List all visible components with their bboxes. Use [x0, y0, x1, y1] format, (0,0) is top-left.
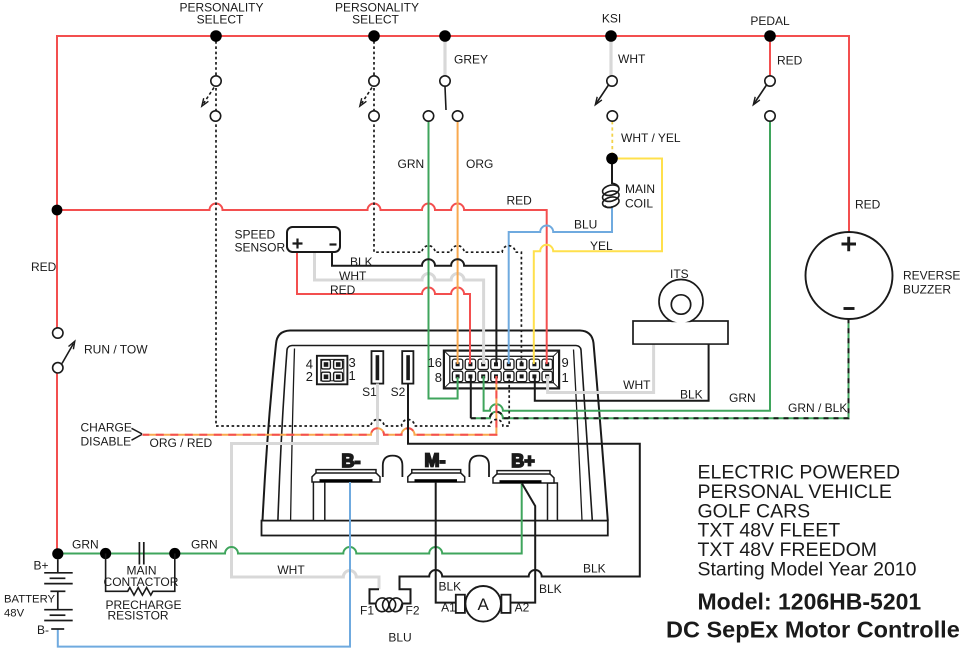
svg-text:BLU: BLU [574, 218, 597, 232]
main contactor tips [139, 542, 143, 565]
wire RED pedal stub [769, 36, 771, 76]
wire GRN/BLK black dashes overlay [471, 319, 849, 418]
svg-text:B-: B- [37, 623, 49, 637]
svg-text:WHT: WHT [618, 52, 646, 66]
wire BLK pin 7 stub [470, 376, 472, 418]
wire ORG selector to pin 16 [457, 121, 459, 364]
svg-text:2: 2 [306, 369, 313, 384]
wire BLK speed sensor to pin 13 [332, 252, 496, 364]
info text block [698, 462, 917, 581]
svg-text:GRN / BLK: GRN / BLK [788, 401, 847, 415]
wire GRN pedal to pin 6 [484, 121, 770, 411]
wire dotted PERSONALITY-2 to pin 11 [374, 36, 521, 364]
wire ORG/RED red dashes overlay [143, 376, 497, 435]
wire RED bus y210 with hops to pin 9 [57, 204, 547, 365]
junction dot battery B+ [52, 548, 63, 559]
svg-text:BLK: BLK [539, 582, 562, 596]
controller inner cover line left [291, 349, 295, 521]
wire BLK B+ to A2 [511, 484, 536, 603]
svg-text:Starting Model Year 2010: Starting Model Year 2010 [698, 559, 917, 581]
svg-text:RUN / TOW: RUN / TOW [84, 343, 148, 357]
svg-text:B+: B+ [34, 559, 49, 573]
wire RED speed sensor to pin 15 [297, 252, 470, 364]
switch KSI contacts and lever arrow [595, 76, 617, 121]
junction dot KSI [605, 30, 617, 42]
F1 bracket [370, 589, 380, 603]
svg-text:BLK: BLK [350, 255, 373, 269]
svg-text:8: 8 [435, 370, 442, 385]
switch personality 1 contacts and dashed lever [202, 76, 221, 121]
controller outer cover outline [263, 331, 608, 521]
main coil loops [601, 183, 620, 209]
wire WHT/YEL dashed stub at KSI [611, 121, 613, 153]
wire BLK main coil top lead [611, 159, 613, 185]
svg-text:WHT: WHT [339, 269, 367, 283]
wire RED left vertical battery feed upper [56, 210, 58, 328]
junction dot contactor right [169, 548, 180, 559]
battery cell plates [44, 559, 72, 629]
svg-text:1: 1 [562, 370, 569, 385]
svg-text:WHT / YEL: WHT / YEL [621, 131, 681, 145]
svg-text:RED: RED [777, 54, 803, 68]
terminal tray M- [408, 470, 465, 483]
svg-text:BLK: BLK [439, 580, 462, 594]
speed sensor box [287, 227, 340, 252]
wire GREY KSI stub [609, 36, 612, 76]
wire BLU main coil to pin 12 [509, 206, 612, 364]
ITS inner circle [671, 295, 690, 314]
connector 16-pin pins row 16..9 and 8..1 [452, 359, 552, 382]
switch personality 2 contacts and dashed lever [360, 76, 379, 121]
motor armature circle [465, 586, 501, 622]
svg-text:F1: F1 [360, 604, 374, 618]
svg-text:WHT: WHT [623, 378, 651, 392]
terminal post under B+ [548, 483, 558, 521]
svg-text:KSI: KSI [602, 12, 621, 26]
svg-text:Model: 1206HB-5201: Model: 1206HB-5201 [698, 589, 922, 615]
speed sensor minus [330, 243, 337, 245]
svg-text:CHARGE: CHARGE [81, 421, 132, 435]
terminal tray B+ [493, 471, 554, 484]
svg-text:CONTACTOR: CONTACTOR [104, 575, 179, 589]
wire WHT S1 to F1 [232, 384, 380, 590]
wire GRN selector to pin 8 [429, 121, 458, 398]
svg-text:GRN: GRN [398, 157, 425, 171]
svg-text:BLK: BLK [583, 562, 606, 576]
svg-text:BATTERY: BATTERY [4, 593, 56, 605]
charge disable arrow [132, 428, 143, 440]
svg-text:YEL: YEL [590, 239, 613, 253]
junction dot PEDAL [764, 30, 776, 42]
svg-text:PEDAL: PEDAL [750, 14, 790, 28]
svg-text:REVERSE: REVERSE [903, 269, 960, 283]
svg-text:A2: A2 [515, 601, 530, 615]
terminal tray B- [312, 470, 380, 483]
svg-text:WHT: WHT [277, 563, 305, 577]
svg-text:RED: RED [330, 283, 356, 297]
svg-text:RED: RED [855, 198, 881, 212]
wire BLK pin 2 to ITS [535, 344, 709, 401]
svg-text:A: A [478, 595, 490, 614]
svg-text:RED: RED [507, 194, 533, 208]
reverse buzzer circle [806, 232, 893, 319]
buzzer plus [842, 237, 857, 252]
svg-text:DISABLE: DISABLE [81, 435, 132, 449]
junction dot grey selector [439, 30, 451, 42]
ITS outer ring [659, 280, 703, 324]
svg-text:ORG / RED: ORG / RED [150, 436, 213, 450]
wire BLU battery B- to controller B- [58, 482, 350, 647]
wire RED main loop top bus and pedal feed to reverse buzzer [57, 36, 849, 231]
wire BLK M- to A1 [436, 482, 456, 603]
junction dot personality 2 [368, 30, 380, 42]
svg-text:ORG: ORG [466, 157, 493, 171]
svg-text:BLU: BLU [388, 631, 411, 645]
controller base plate [262, 521, 608, 536]
controller inner cover line right [574, 350, 583, 521]
switch RUN/TOW contacts and lever arrow [53, 328, 75, 373]
ITS body [633, 321, 728, 344]
svg-text:F2: F2 [405, 604, 419, 618]
svg-text:SELECT: SELECT [352, 13, 399, 27]
connector S2 slot [402, 351, 413, 384]
svg-text:1: 1 [349, 368, 356, 383]
svg-text:SPEED: SPEED [235, 228, 276, 242]
svg-text:GRN: GRN [729, 391, 756, 405]
svg-text:BLK: BLK [680, 388, 703, 402]
main contactor box with precharge resistor zigzag [106, 554, 175, 596]
svg-text:GREY: GREY [454, 53, 488, 67]
svg-text:ITS: ITS [670, 267, 689, 281]
svg-text:GRN: GRN [72, 538, 99, 552]
svg-text:16: 16 [428, 355, 442, 370]
wire GRN battery bus to B+ [58, 484, 522, 554]
junction dot contactor left [100, 548, 111, 559]
svg-text:GRN: GRN [191, 538, 218, 552]
svg-text:RESISTOR: RESISTOR [107, 608, 168, 622]
connector 4-pin housing [317, 356, 348, 385]
wire BLK S2 to F2 [400, 384, 640, 604]
svg-text:SELECT: SELECT [197, 13, 244, 27]
motor A2 bracket [501, 595, 510, 613]
terminal post under B- [313, 481, 324, 521]
field coil F1-F2 loops [375, 597, 404, 613]
motor A1 bracket [456, 595, 465, 613]
buzzer minus [844, 307, 855, 310]
wire GRN/BLK pin 7 to reverse buzzer (green base) [471, 319, 849, 418]
wire WHT speed sensor to pin 14 [315, 252, 484, 364]
wire ORG/RED pin 5 to charge disable (orange base) [143, 376, 497, 435]
wire RED left vertical battery feed lower [56, 373, 58, 554]
svg-text:9: 9 [562, 355, 569, 370]
switch grey selector contacts and lever [423, 76, 463, 121]
svg-text:A1: A1 [441, 601, 456, 615]
svg-text:COIL: COIL [625, 197, 653, 211]
connector S1 slot [372, 351, 384, 384]
CONTROLLER-BODY [262, 331, 608, 536]
wire dotted PERSONALITY-1 to pin 4 [216, 36, 509, 426]
junction dot left red bus [52, 205, 63, 216]
connector 4-pin pins [321, 360, 342, 381]
terminal arch between B- and M- [383, 456, 403, 477]
switch PEDAL contacts and lever arrow [753, 76, 775, 121]
svg-text:S2: S2 [391, 385, 406, 399]
svg-text:S1: S1 [362, 385, 377, 399]
svg-text:SENSOR: SENSOR [235, 241, 286, 255]
svg-text:48V: 48V [4, 608, 25, 620]
speed sensor plus [293, 239, 303, 249]
wire YEL main coil junction to pin 10 [534, 159, 662, 365]
wire GREY selector switch stub [443, 36, 446, 76]
svg-text:DC SepEx Motor Controller: DC SepEx Motor Controller [666, 617, 960, 643]
junction dot main coil [606, 153, 618, 165]
junction dot personality 1 [210, 30, 222, 42]
svg-text:MAIN: MAIN [625, 182, 655, 196]
connector 16-pin housing [444, 351, 559, 389]
terminal arch between M- and B+ [469, 456, 489, 477]
svg-text:RED: RED [31, 260, 57, 274]
controller middle cover line [278, 346, 592, 521]
wire WHT pin 1 to ITS [548, 344, 654, 393]
svg-text:BUZZER: BUZZER [903, 283, 951, 297]
